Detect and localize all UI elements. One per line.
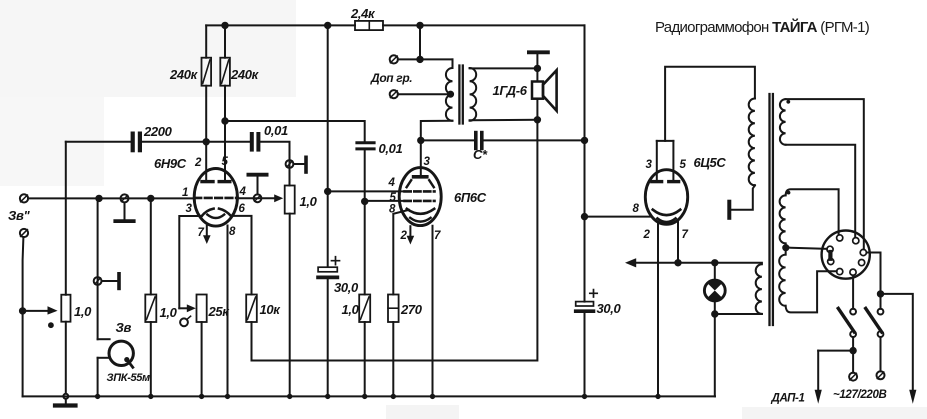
wire R2 to ground rail — [150, 322, 152, 396]
connector pin2 — [853, 238, 859, 244]
wire B+ branch to primary top — [419, 25, 421, 59]
node S1 branch — [850, 348, 855, 353]
wire R4 top to rail — [224, 25, 226, 57]
node anode pin2 junction — [204, 139, 209, 144]
wire C1 to anode node — [142, 141, 250, 143]
svg-text:ЗПК-55м: ЗПК-55м — [107, 372, 151, 384]
wire lamp line to ground rail — [714, 314, 716, 396]
capacitor C3 0,01 — [357, 143, 374, 149]
wire R10 to ground rail — [392, 322, 394, 396]
svg-text:2200: 2200 — [143, 124, 173, 139]
connector pin1 — [837, 235, 843, 241]
svg-text:6Н9С: 6Н9С — [154, 156, 187, 171]
svg-text:2: 2 — [400, 230, 408, 242]
wire S2 to mains terminal — [880, 337, 882, 371]
svg-text:7: 7 — [434, 230, 441, 242]
node anode C* junction — [418, 138, 423, 143]
node rail screen branch — [325, 23, 330, 28]
wire HV bottom to chassis — [732, 185, 755, 209]
shield ring connector on input wire — [121, 194, 129, 202]
terminal Доп гр upper — [390, 55, 398, 63]
svg-text:30,0: 30,0 — [334, 280, 359, 295]
wire W2 bottom to connector pin3 — [786, 243, 827, 248]
node speaker feedback — [535, 117, 540, 122]
V1 anode plate pin5 — [219, 180, 230, 183]
svg-text:C*: C* — [473, 147, 488, 162]
wire R3 bottom to anode pin2 — [205, 86, 207, 181]
svg-text:Зв: Зв — [116, 320, 132, 335]
mains arrow right — [909, 390, 916, 404]
svg-text:5: 5 — [390, 192, 397, 204]
resistor R3 240к left — [202, 58, 212, 86]
V1 grid dashed line — [195, 197, 238, 200]
wire W2 top to connector pin1 — [786, 189, 839, 234]
svg-text:7: 7 — [682, 229, 689, 241]
svg-text:3: 3 — [646, 159, 653, 171]
wire C* left — [421, 139, 474, 141]
wire R3 top to rail — [205, 25, 207, 57]
connector pin7 — [837, 269, 843, 275]
switch S2 — [866, 308, 884, 337]
shield ground bar right of ring — [102, 274, 120, 289]
V1 cathode arc left — [201, 209, 213, 217]
potentiometer R5 1,0 tone — [285, 186, 295, 214]
wire V1 pin3 cathode to 25к wiper — [179, 216, 202, 312]
wire S1 to motor arrow — [818, 337, 853, 390]
svg-text:270: 270 — [400, 302, 423, 317]
title — [655, 20, 869, 35]
node lamp bottom — [712, 311, 717, 316]
node mains branch — [878, 291, 883, 296]
wire pin5 node to C3 — [225, 121, 365, 142]
svg-text:30,0: 30,0 — [597, 301, 622, 316]
node coupling branch on pin5 lead — [222, 118, 227, 123]
wire from lower terminal down — [22, 237, 25, 311]
V3 heater arc — [657, 218, 675, 222]
connector pin6 — [859, 260, 865, 266]
svg-text:25к: 25к — [208, 304, 231, 319]
wire jog to pickup top — [98, 338, 110, 340]
transformer T2 5V winding — [756, 264, 762, 314]
wire lower terminal line to ground rail — [22, 311, 24, 397]
resistor R10 270 — [388, 295, 399, 323]
wire pin8 to switch S1 — [852, 275, 854, 308]
wire 2200 to pot top — [65, 142, 67, 295]
svg-text:7: 7 — [198, 227, 205, 239]
capacitor C1 2200 — [133, 134, 140, 151]
wire V2 pin8 cathode to 270 — [393, 210, 409, 295]
switch S1 — [838, 308, 856, 337]
wire C* right to B+ line — [484, 139, 585, 141]
wire V3 anodes to HV winding — [665, 67, 755, 141]
wire pickup bottom to ground rail — [98, 358, 110, 397]
wire V3 pin2 to ground rail — [657, 223, 659, 396]
capacitor C2 0,01 — [252, 134, 259, 150]
C4 plus sign — [332, 257, 340, 265]
T2 winding W1 — [780, 99, 786, 145]
wire pin5 to switch S2 and mains — [867, 253, 913, 390]
wire V3 pin7 to heater line — [677, 222, 679, 263]
svg-text:8: 8 — [633, 203, 640, 215]
node rectifier cathode — [582, 214, 587, 219]
svg-text:Зв": Зв" — [8, 208, 31, 223]
W1 polarity dot — [786, 100, 790, 104]
wire lamp bottom to 5V winding — [715, 313, 762, 315]
potentiometer R6 25к — [197, 295, 207, 323]
connector pin5 — [860, 249, 866, 255]
V2 control grid dashes — [405, 200, 435, 203]
svg-text:8: 8 — [389, 204, 396, 216]
V3 pin labels — [633, 159, 689, 241]
svg-text:ДАП-1: ДАП-1 — [771, 393, 805, 405]
wire V1 pin6 cathode to 10к — [231, 216, 252, 295]
V2 beam plate left — [407, 180, 412, 187]
svg-text:1: 1 — [182, 187, 188, 199]
svg-text:240к: 240к — [230, 67, 260, 82]
svg-text:10к: 10к — [260, 302, 282, 317]
wire R4 bottom to anode pin5 — [224, 86, 226, 181]
input terminal Зв lower — [20, 229, 28, 237]
V2 screen grid dashes — [405, 190, 435, 193]
wire V2 pin7 to ground rail — [432, 226, 434, 397]
node B+ C* — [582, 138, 587, 143]
wire grid node to V2 pin5 — [365, 200, 405, 202]
connector pin4 — [828, 258, 834, 264]
V3 anode plate pin5 — [669, 180, 679, 183]
V2 pin2 heater arrow — [407, 226, 415, 244]
chassis bar HV — [727, 202, 731, 218]
wire screen supply down — [327, 25, 329, 267]
shield ring on grid lead — [286, 160, 294, 168]
svg-text:8: 8 — [229, 226, 236, 238]
node V3 pin7 heater — [675, 260, 680, 265]
svg-text:4: 4 — [388, 177, 396, 189]
resistor R8 2,4к — [355, 21, 383, 30]
wire input to grid pin1 — [28, 197, 194, 199]
wire screen to V2 pin4 — [328, 190, 405, 192]
ground rail — [23, 395, 715, 397]
svg-text:1ГД-6: 1ГД-6 — [493, 83, 528, 98]
svg-text:1,0: 1,0 — [342, 302, 360, 317]
pickup ЗПК-55м circle — [109, 341, 133, 365]
wire R9 to ground rail — [364, 322, 366, 396]
motor arrow down — [815, 390, 822, 404]
speaker 1ГД-6 — [532, 70, 557, 111]
node secondary top — [535, 66, 540, 71]
svg-text:1,0: 1,0 — [300, 194, 318, 209]
node screen grid branch — [325, 189, 330, 194]
wire W1 bottom to connector — [786, 145, 856, 238]
capacitor C6 30,0 electrolytic — [576, 302, 594, 312]
svg-text:2: 2 — [194, 157, 202, 169]
tube V2 6П6С envelope — [399, 168, 441, 226]
connector shorting link — [828, 252, 832, 259]
resistor R7 10к — [246, 295, 257, 323]
wire B+ vertical — [584, 25, 586, 396]
mains terminal right — [877, 371, 885, 379]
shield ring on pickup lead — [94, 277, 102, 285]
input terminal Зв upper — [20, 194, 28, 202]
wire C2 to pot R5 top — [261, 142, 290, 186]
mains terminal left — [849, 373, 857, 381]
ground lug circle — [63, 394, 68, 399]
wire S1 to mains terminal — [852, 351, 854, 373]
capacitor C4 30,0 electrolytic — [318, 267, 337, 277]
wire cathode line to V3 pin8 — [585, 216, 652, 218]
wire Доп гр lower to primary tap — [398, 93, 451, 95]
resistor R9 1,0 grid leak — [359, 295, 370, 323]
shield chassis bar right — [293, 157, 306, 172]
resistor R4 240к right — [220, 58, 230, 86]
node grid-leak branch — [148, 196, 153, 201]
T1 core — [459, 66, 462, 124]
wire feedback down and left to 10к — [252, 120, 538, 361]
tube V3 6Ц5С envelope — [645, 170, 687, 225]
terminal Доп гр lower — [390, 90, 398, 98]
transformer T2 HV winding — [749, 99, 755, 186]
wire to speaker coil — [536, 68, 538, 81]
wire grid node to grid leak — [364, 201, 366, 294]
heater line with arrow — [625, 258, 762, 267]
node pickup branch — [96, 196, 101, 201]
node rail to output transformer — [417, 23, 422, 28]
V2 beam plate right — [429, 180, 434, 187]
scan background patches — [0, 0, 296, 97]
node rail R4 — [222, 23, 227, 28]
tube V1 6Н9С envelope — [194, 169, 237, 227]
T2 winding W2 — [780, 195, 786, 243]
T1 secondary winding — [470, 68, 477, 121]
motor connector socket — [822, 231, 870, 279]
node volume pot tap — [20, 308, 25, 313]
wire B2+ top rail left — [206, 24, 355, 26]
node primary tap — [448, 92, 453, 97]
wire V2 anode to transformer primary — [421, 121, 453, 175]
svg-text:240к: 240к — [169, 67, 199, 82]
wire speaker to secondary bottom — [470, 99, 538, 121]
V1 pin7 heater arrow — [203, 226, 211, 244]
lamp pilot — [704, 263, 725, 314]
wire secondary top to speaker — [470, 67, 538, 69]
svg-text:Доп гр.: Доп гр. — [370, 71, 412, 85]
svg-text:0,01: 0,01 — [379, 141, 403, 156]
svg-text:3: 3 — [424, 156, 431, 168]
wire V1 pin8 to ground rail — [227, 226, 229, 397]
svg-text:1,0: 1,0 — [74, 304, 92, 319]
chassis bar below ring — [115, 203, 133, 222]
V1 anode plate pin2 — [202, 180, 213, 183]
T2 winding W3 — [779, 255, 785, 306]
connector pin3 — [827, 246, 833, 252]
wire B+ top rail right — [383, 24, 585, 26]
wire W3 top stub — [785, 248, 787, 255]
wire W3 bottom to connector pin7 — [786, 271, 837, 312]
svg-text:6Ц5С: 6Ц5С — [694, 155, 727, 170]
svg-text:4: 4 — [239, 186, 247, 198]
svg-text:~127/220В: ~127/220В — [833, 389, 886, 401]
ground chassis symbol — [55, 399, 76, 405]
pickup stylus — [124, 357, 133, 367]
V2 cathode arc — [407, 209, 434, 214]
wire wiper arrow to pot R1 — [23, 310, 49, 312]
svg-text:6П6С: 6П6С — [454, 190, 487, 205]
terminal marker at 25к — [180, 316, 191, 326]
V1 cathode arc right — [219, 209, 232, 217]
V2 pin labels — [388, 156, 442, 242]
wire 2200 feedback horizontal — [66, 141, 131, 143]
svg-text:0,01: 0,01 — [264, 123, 288, 138]
T2 core — [770, 94, 773, 325]
wire C3 to V2 grid node — [364, 149, 366, 202]
V1 pin labels — [182, 156, 247, 239]
transformer T1 primary winding — [446, 68, 453, 121]
V2 heater arc — [410, 218, 430, 222]
chassis bar above speaker — [529, 52, 548, 68]
potentiometer R1 1,0 volume — [61, 295, 70, 322]
wire 10к bottom to feedback line — [251, 322, 253, 361]
svg-text:6: 6 — [239, 203, 246, 215]
C6 plus sign — [590, 290, 597, 297]
svg-text:5: 5 — [222, 156, 229, 168]
W2 polarity dot — [787, 191, 791, 195]
wire R5 bottom to ground rail — [289, 214, 291, 397]
wire pot bottom to ground lug — [65, 322, 67, 394]
svg-text:2: 2 — [643, 229, 651, 241]
node W2 bottom W3 top — [783, 245, 788, 250]
dot marker below wiper — [48, 322, 54, 328]
rail junction dots — [95, 394, 661, 399]
svg-text:1,0: 1,0 — [160, 305, 178, 320]
shield ring on grid wire — [254, 194, 262, 202]
resistor R2 1,0 — [145, 295, 156, 323]
svg-text:2,4к: 2,4к — [350, 6, 376, 21]
chassis bar above ring — [248, 175, 266, 195]
V1 heater arc — [207, 215, 224, 218]
connector pin8 — [850, 269, 856, 275]
capacitor C5 C* — [476, 133, 482, 149]
node lamp top — [712, 260, 717, 265]
wire shielded lead down to pickup — [97, 198, 99, 339]
svg-text:3: 3 — [186, 203, 193, 215]
V3 cathode arc — [653, 210, 680, 215]
wire W1 top to connector — [786, 99, 864, 249]
wire C4 to ground rail — [327, 279, 329, 396]
V3 anode plate pin3 — [652, 180, 662, 183]
V2 anode plate — [414, 175, 427, 179]
wire 25к bottom to ground rail — [201, 322, 203, 396]
V3 anode leads joined — [657, 141, 674, 182]
node Доп гр top — [417, 57, 422, 62]
node V2 grid — [362, 199, 367, 204]
wire grid leak down — [150, 198, 152, 294]
wire V1 pin4 grid to pot R5 wiper — [237, 194, 283, 202]
wire Доп гр upper to primary top — [398, 59, 453, 68]
svg-text:5: 5 — [680, 159, 687, 171]
